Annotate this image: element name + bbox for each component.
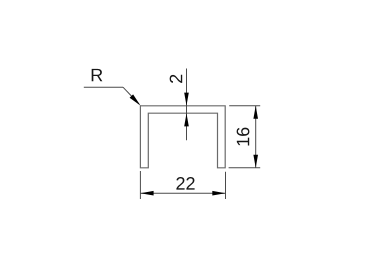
dimension 16: value label "16" (rotated) <box>237 128 250 146</box>
dimension 22: dimension line <box>140 192 225 194</box>
dimension 2: value label "2" (rotated) <box>170 75 183 83</box>
radius leader: diagonal segment <box>123 87 139 104</box>
dimension 22: right extension line <box>225 172 227 199</box>
dimension 16: bottom extension line <box>229 167 261 169</box>
dimension 22: left arrowhead <box>140 191 153 196</box>
dimension 2: upper arrowhead (points down to outer top edge) <box>184 93 189 106</box>
dimension 16: dimension line <box>255 106 257 168</box>
radius leader: horizontal segment <box>84 86 123 88</box>
U-channel profile outline <box>140 106 225 168</box>
dimension 2: lower arrowhead (points up to inner top edge) <box>184 113 189 126</box>
dimension 16: bottom arrowhead <box>253 155 258 168</box>
radius label "R" <box>92 69 103 81</box>
radius leader: arrowhead at top-left corner <box>130 94 141 105</box>
dimension 22: value label "22" <box>176 177 194 190</box>
dimension 22: left extension line <box>139 171 141 199</box>
dimension 16: top extension line <box>229 105 260 107</box>
dimension 22: right arrowhead <box>212 191 225 196</box>
dimension 2: dimension line <box>186 69 188 141</box>
dimension 16: top arrowhead <box>253 106 258 119</box>
